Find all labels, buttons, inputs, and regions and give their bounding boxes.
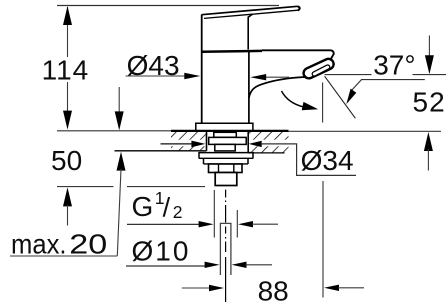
- svg-text:37°: 37°: [373, 50, 415, 81]
- shank washer in hole: [209, 137, 247, 144]
- counter top line thick: [171, 130, 289, 132]
- extension line top (height 114 upper bound): [57, 5, 279, 7]
- stream curved arrow: [282, 91, 304, 107]
- shank lower spacer in hole: [215, 144, 235, 151]
- dimension 88 left arrow: [182, 287, 210, 289]
- Ø43 arrow left-pointing at body right edge: [250, 74, 266, 80]
- counter top line right thin: [289, 130, 442, 132]
- dimension 88 right arrow: [324, 285, 339, 291]
- mounting flange below counter: [199, 153, 253, 159]
- Ø34 arrow left-pointing at hole right edge + leader: [249, 141, 262, 147]
- svg-text:20: 20: [69, 228, 107, 259]
- dimension 114 arrow up: [63, 6, 72, 25]
- G1/2 underline + arrow: [127, 223, 200, 225]
- 37deg leader line: [352, 80, 425, 91]
- 37deg leader arrowhead: [346, 89, 356, 105]
- spout top edge: [262, 50, 334, 62]
- Ø34 arrow right-pointing at hole left edge: [161, 143, 193, 145]
- Ø10 underline + arrow: [126, 265, 205, 267]
- Ø10 right arrow: [232, 262, 247, 268]
- svg-text:/: /: [163, 193, 171, 223]
- aerator axis line upper: [322, 83, 324, 123]
- lever top edge: [202, 6, 298, 14]
- lever tip: [298, 6, 300, 10]
- shank spacer in hole: [214, 132, 237, 137]
- aerator slot: [311, 64, 330, 76]
- dimension 50 bottom line: [57, 186, 114, 188]
- svg-text:G: G: [132, 191, 154, 222]
- svg-text:Ø10: Ø10: [132, 235, 191, 266]
- angle reference line 37deg: [325, 76, 356, 118]
- counter hole right edge: [247, 131, 249, 153]
- dimension 52 arrow down (above outlet line): [428, 36, 430, 59]
- dimension 114 line upper segment: [67, 7, 69, 57]
- faucet body left edge: [201, 15, 203, 124]
- supply pipe outline: [220, 223, 231, 275]
- dimension max20 arrow up (below counter) + leader to label: [117, 152, 126, 171]
- counter bottom line right: [248, 152, 284, 154]
- supply pipe centerline dash-dot: [225, 190, 227, 302]
- aerator housing: [302, 57, 335, 80]
- nut facet right: [233, 164, 235, 173]
- spacer ring below flange: [204, 159, 249, 165]
- threaded connector: [215, 173, 237, 186]
- faucet base plate: [196, 123, 253, 130]
- Ø43 arrow right-pointing at body left edge: [184, 73, 200, 79]
- dimension 52 arrow up (below counter line): [424, 132, 433, 151]
- svg-text:2: 2: [173, 202, 183, 222]
- lever underside: [204, 10, 298, 18]
- counter bottom line left: [115, 150, 207, 152]
- svg-text:52: 52: [413, 86, 446, 117]
- svg-text:max.: max.: [11, 228, 67, 259]
- aerator axis line lower: [322, 181, 324, 298]
- dimension 114/50 arrow down: [63, 111, 72, 130]
- svg-text:Ø34: Ø34: [301, 145, 354, 176]
- G1/2 extension line left: [213, 190, 215, 238]
- nut facet left: [218, 164, 220, 173]
- svg-text:114: 114: [42, 54, 90, 85]
- faucet body right edge: [248, 51, 250, 124]
- mounting nut: [209, 164, 243, 173]
- svg-text:50: 50: [51, 145, 82, 176]
- lever stem: [248, 14, 252, 49]
- G1/2 extension line right: [236, 210, 238, 238]
- counter slab hatch left: [171, 132, 207, 140]
- dimension 114 line lower segment: [67, 82, 69, 114]
- dimension line 37deg (spout outlet level): [325, 74, 372, 76]
- body top thick line: [202, 50, 262, 53]
- counter hole left edge: [206, 131, 208, 151]
- svg-text:88: 88: [258, 275, 289, 304]
- dimension 50 arrow up (below line): [63, 187, 72, 206]
- spout underside curve: [249, 77, 305, 98]
- dimension max20 arrow down (above counter): [118, 87, 120, 114]
- counter top line left thin: [57, 130, 171, 132]
- G1/2 right arrow: [238, 221, 253, 227]
- counter slab hatch right: [248, 132, 288, 140]
